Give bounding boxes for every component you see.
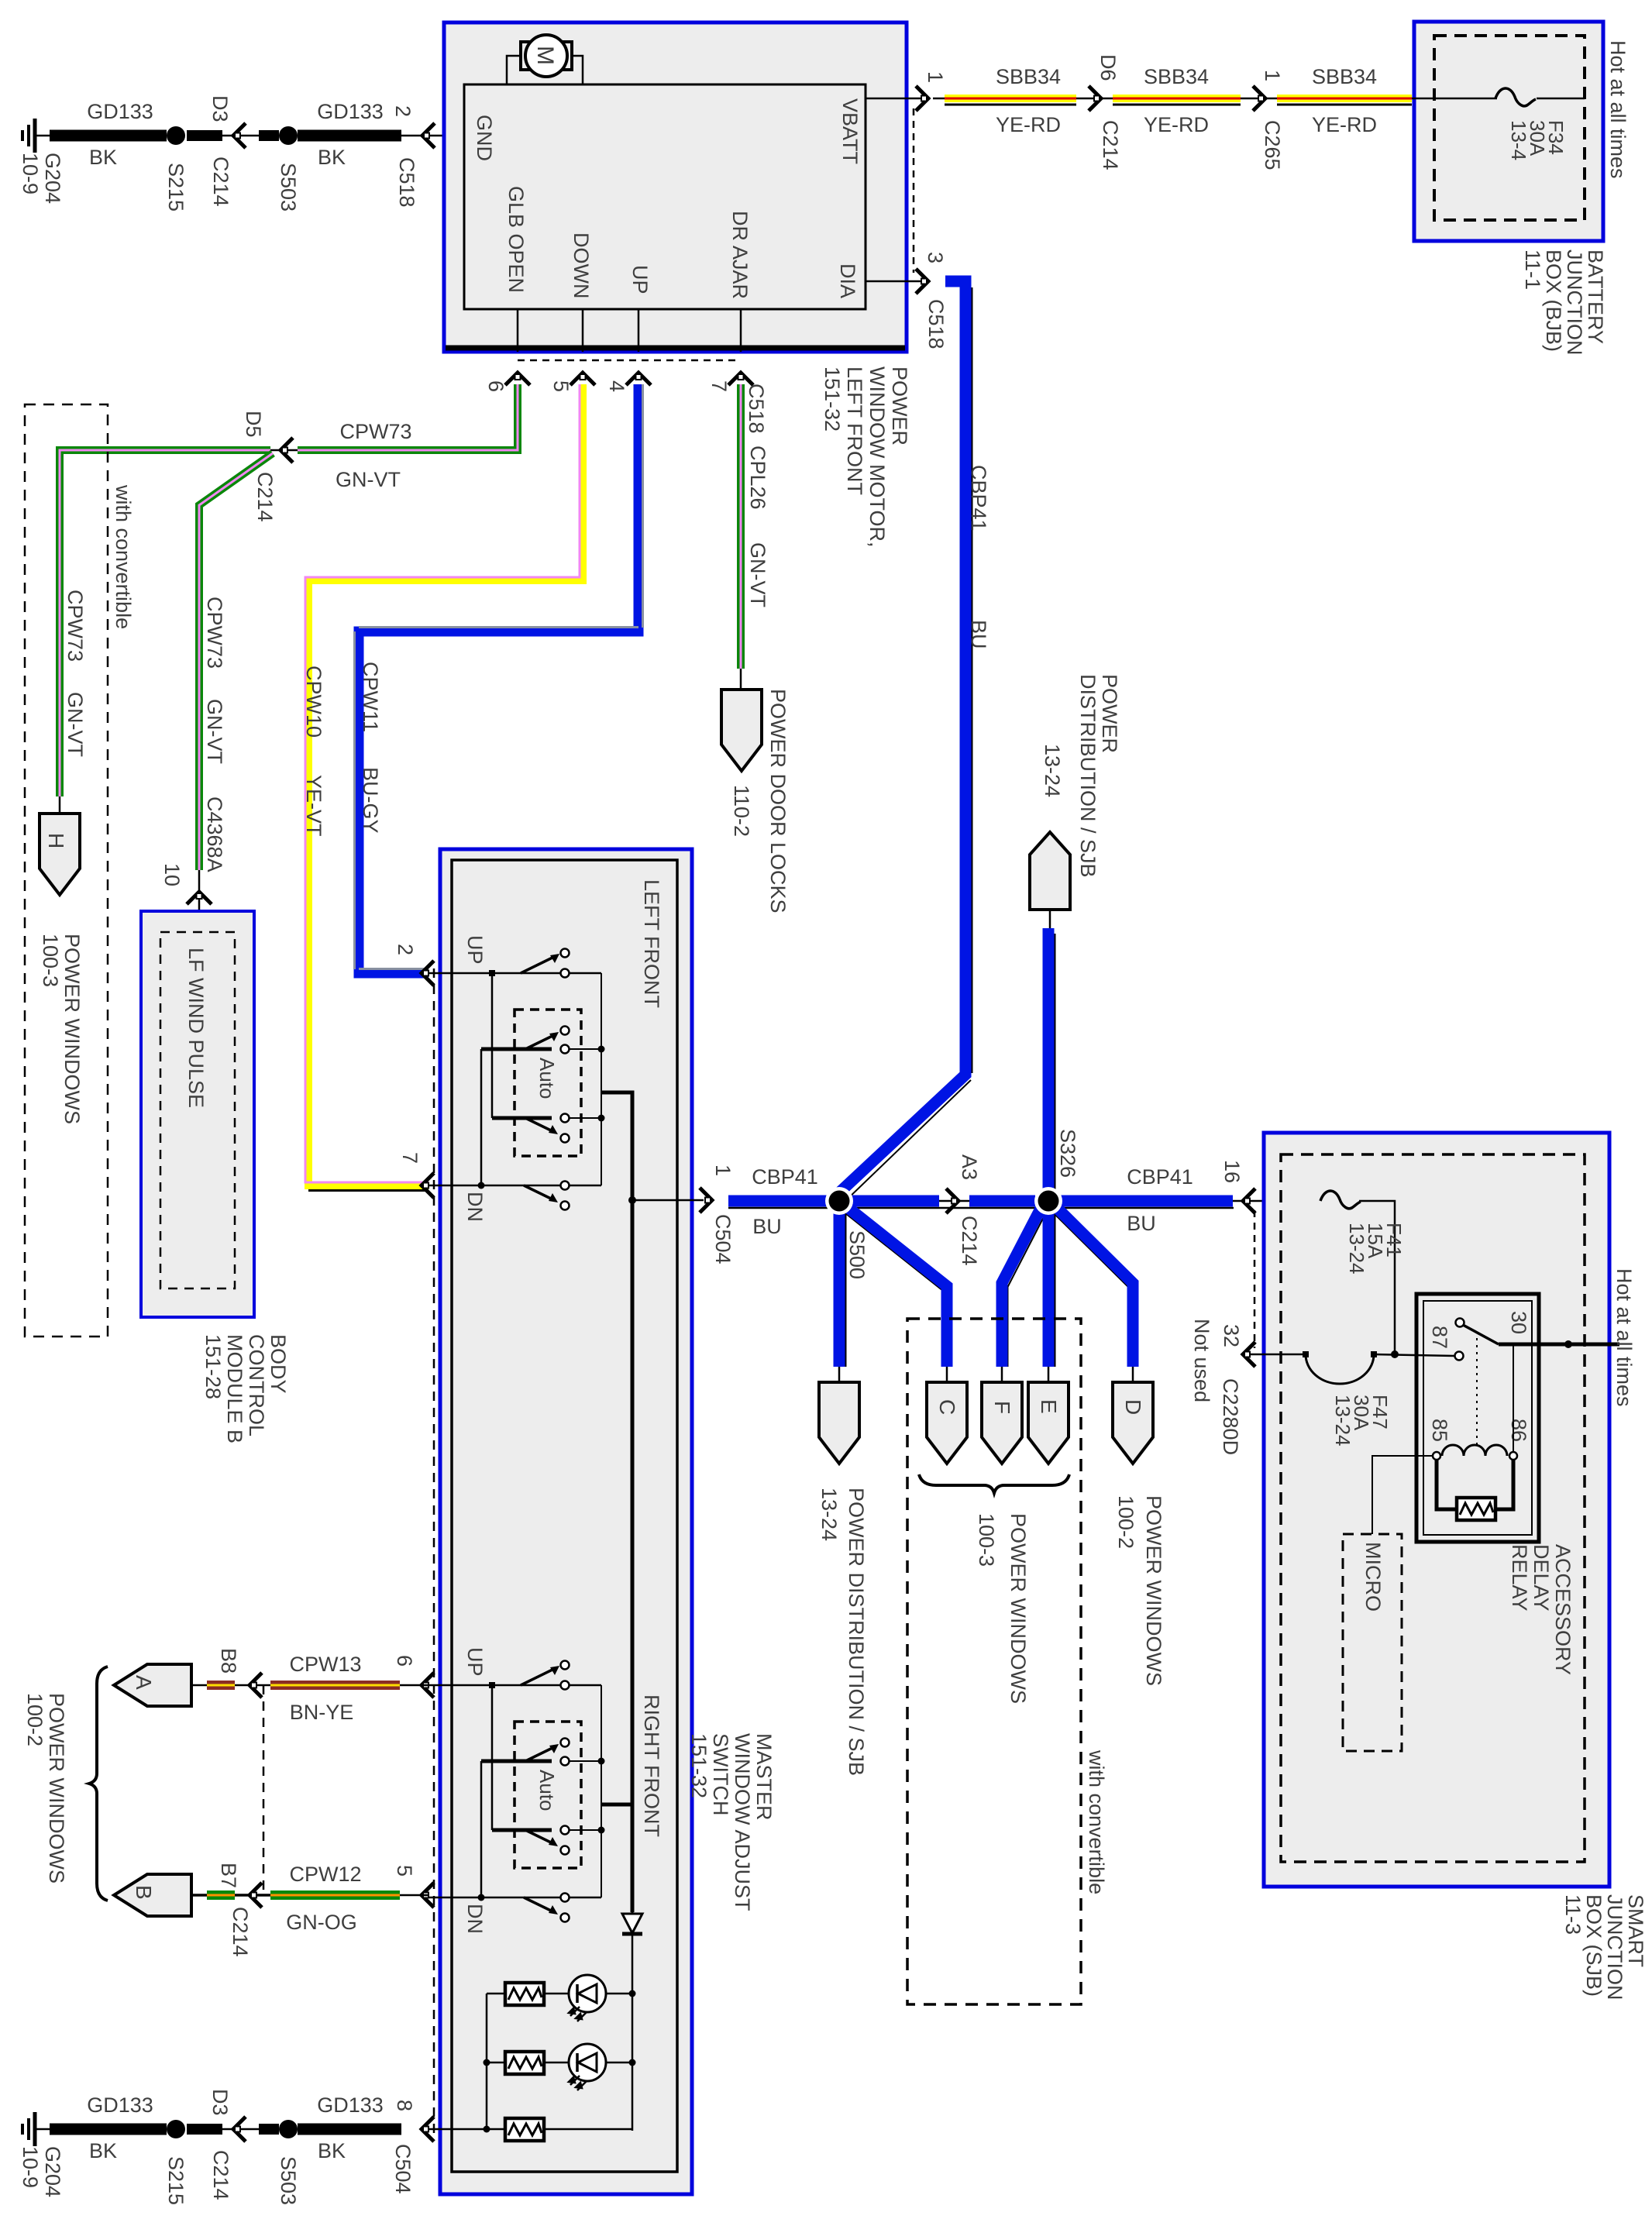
svg-text:GN-VT: GN-VT xyxy=(336,468,401,491)
svg-text:YE-RD: YE-RD xyxy=(1144,113,1209,136)
LED 1 xyxy=(569,1975,606,2021)
svg-text:CPW11: CPW11 xyxy=(359,662,382,732)
svg-text:UP: UP xyxy=(463,935,487,965)
wire dash xyxy=(259,130,279,141)
wire CPW13 BN-YE xyxy=(270,1681,400,1690)
connector B7 arrow xyxy=(250,1883,262,1908)
svg-text:13-24: 13-24 xyxy=(817,1488,841,1541)
svg-text:LF WIND PULSE: LF WIND PULSE xyxy=(184,948,208,1108)
svg-text:85: 85 xyxy=(1428,1419,1451,1442)
relay pin 86 wire xyxy=(1513,1346,1514,1451)
svg-text:GLB OPEN: GLB OPEN xyxy=(504,186,528,293)
svg-text:POWER DOOR LOCKS: POWER DOOR LOCKS xyxy=(766,689,790,913)
svg-text:16: 16 xyxy=(1220,1160,1244,1183)
svg-text:10-9: 10-9 xyxy=(19,2146,42,2188)
motor box outer xyxy=(444,22,907,352)
svg-text:RIGHT FRONT: RIGHT FRONT xyxy=(640,1694,663,1837)
wire branch shadow edges xyxy=(841,1080,1129,1367)
connector C265 arrow xyxy=(1241,98,1277,100)
svg-text:D3: D3 xyxy=(208,2089,232,2116)
svg-text:C4368A: C4368A xyxy=(203,796,226,872)
auto dashed box xyxy=(515,1010,581,1156)
svg-text:8: 8 xyxy=(393,2100,416,2111)
wire bus seg1 xyxy=(728,1196,939,1207)
wire stub GN-OG xyxy=(207,1890,235,1900)
svg-text:E: E xyxy=(1037,1399,1061,1414)
svg-text:SBB34: SBB34 xyxy=(1144,65,1209,88)
svg-text:DR AJAR: DR AJAR xyxy=(728,211,752,299)
pin arrows and numbers xyxy=(422,961,434,986)
svg-text:H: H xyxy=(44,833,68,848)
wire S500 down branch xyxy=(834,1201,845,1367)
svg-text:CPL26: CPL26 xyxy=(746,446,769,510)
svg-text:CPW73: CPW73 xyxy=(64,590,87,662)
svg-text:GN-VT: GN-VT xyxy=(64,692,87,757)
svg-text:YE-VT: YE-VT xyxy=(302,775,325,837)
svg-text:B: B xyxy=(132,1885,156,1900)
svg-text:BU-GY: BU-GY xyxy=(359,767,382,834)
resistor R3 row xyxy=(484,2126,490,2133)
svg-text:A: A xyxy=(132,1675,156,1690)
svg-text:100-2: 100-2 xyxy=(23,1693,46,1746)
connector D5 arrow xyxy=(270,449,298,452)
svg-text:LEFT FRONT: LEFT FRONT xyxy=(640,879,663,1008)
svg-text:POWER DISTRIBUTION / SJB: POWER DISTRIBUTION / SJB xyxy=(845,1488,868,1776)
connector D3 arrow xyxy=(233,123,246,148)
svg-text:87: 87 xyxy=(1428,1326,1451,1349)
svg-text:Auto: Auto xyxy=(535,1058,559,1099)
svg-text:A3: A3 xyxy=(958,1154,981,1180)
motor box inner xyxy=(464,84,866,309)
svg-text:110-2: 110-2 xyxy=(730,785,753,837)
connector D3 arrow xyxy=(233,2117,246,2142)
svg-text:DN: DN xyxy=(463,1904,487,1934)
svg-text:B7: B7 xyxy=(217,1863,240,1888)
svg-text:POWER WINDOWS: POWER WINDOWS xyxy=(60,934,84,1124)
pin 1 output junction xyxy=(628,1196,636,1204)
wire CBP41 vertical xyxy=(835,281,965,1197)
svg-text:C504: C504 xyxy=(711,1214,735,1264)
ground G204 xyxy=(22,2112,51,2146)
svg-text:C214: C214 xyxy=(209,157,232,207)
svg-text:D5: D5 xyxy=(242,411,265,438)
relay pin 87 contact xyxy=(1455,1352,1464,1361)
wire GD133 BK segment 1 xyxy=(50,2124,167,2135)
relay actuator dotted line xyxy=(1476,1338,1478,1448)
fuse F47 30A xyxy=(1306,1354,1374,1384)
svg-text:CPW10: CPW10 xyxy=(302,666,325,738)
connector B8 arrow xyxy=(250,1673,262,1698)
svg-text:S500: S500 xyxy=(845,1230,869,1279)
splice S215 xyxy=(167,2120,185,2138)
svg-text:C518: C518 xyxy=(395,157,418,208)
connector A3 arrow xyxy=(939,1200,969,1202)
svg-text:GN-VT: GN-VT xyxy=(746,542,769,607)
with convertible dashed box left xyxy=(25,404,108,1337)
svg-text:G204: G204 xyxy=(41,153,64,204)
switch UP arm xyxy=(521,956,556,973)
connector D6 arrow xyxy=(1076,98,1113,100)
svg-text:GD133: GD133 xyxy=(87,100,153,123)
relay switch arm xyxy=(1463,1325,1499,1344)
connector pentagon POWER DOOR LOCKS xyxy=(740,669,742,690)
VBATT pin 1 wire xyxy=(866,98,922,100)
wire SBB34 seg2 xyxy=(1113,95,1241,106)
switch auto up xyxy=(481,1048,552,1051)
wire CPW73 to BCM xyxy=(199,453,273,870)
svg-text:S215: S215 xyxy=(164,163,188,212)
svg-text:5: 5 xyxy=(549,380,573,392)
relay pin 85 wire to micro xyxy=(1372,1456,1433,1534)
switch cluster RIGHT FRONT xyxy=(428,1661,632,1922)
connector pentagon S500 out xyxy=(819,1382,859,1464)
wire S326 branch to F xyxy=(1002,1206,1042,1367)
wire dash xyxy=(259,2124,279,2135)
wire S500 branch to C xyxy=(845,1206,947,1367)
brace under C F E xyxy=(919,1474,1069,1493)
svg-text:BU: BU xyxy=(967,620,990,649)
connector pentagon C xyxy=(927,1382,967,1464)
svg-text:S503: S503 xyxy=(277,2156,300,2205)
diode xyxy=(632,1804,634,1914)
connector pentagon E xyxy=(1028,1382,1069,1464)
svg-text:GN-OG: GN-OG xyxy=(286,1911,357,1934)
pin 5 arrow xyxy=(570,373,595,385)
svg-text:100-2: 100-2 xyxy=(1114,1495,1137,1549)
fuse F41 15A xyxy=(1320,1191,1361,1209)
svg-text:C: C xyxy=(935,1399,959,1415)
switch DN arm xyxy=(524,1185,552,1199)
svg-text:with convertible: with convertible xyxy=(1085,1749,1108,1894)
wire bus seg3 xyxy=(1061,1196,1233,1207)
relay hot feed line xyxy=(1499,1343,1619,1347)
svg-text:DIA: DIA xyxy=(836,263,859,298)
with convertible dashed box right xyxy=(907,1319,1081,2004)
common bus down to right front xyxy=(631,1200,635,1804)
svg-text:7: 7 xyxy=(707,380,731,392)
svg-text:DOWN: DOWN xyxy=(570,232,593,298)
connector dashed bracket 16-32 xyxy=(1254,1210,1256,1348)
connector pentagon F xyxy=(982,1382,1022,1464)
svg-text:C214: C214 xyxy=(958,1216,981,1266)
svg-text:POWER WINDOWS: POWER WINDOWS xyxy=(45,1693,68,1884)
svg-text:CPW73: CPW73 xyxy=(203,597,226,669)
svg-text:CBP41: CBP41 xyxy=(1127,1165,1193,1189)
svg-text:D3: D3 xyxy=(208,95,232,122)
connector 32 arrow Not used xyxy=(1248,1354,1306,1356)
wire to motor xyxy=(507,56,583,84)
svg-text:86: 86 xyxy=(1507,1419,1530,1442)
svg-text:DN: DN xyxy=(463,1192,487,1222)
svg-text:BK: BK xyxy=(89,2139,117,2162)
svg-text:CPW73: CPW73 xyxy=(339,420,411,443)
svg-text:2: 2 xyxy=(394,944,417,955)
svg-text:1: 1 xyxy=(711,1165,735,1176)
splice S503 xyxy=(279,126,298,145)
ground G204 xyxy=(22,119,51,153)
svg-text:30: 30 xyxy=(1507,1311,1530,1334)
svg-text:POWER WINDOWS: POWER WINDOWS xyxy=(1007,1513,1030,1704)
svg-text:VBATT: VBATT xyxy=(838,98,862,164)
wire CPW73 to H xyxy=(60,450,270,796)
svg-text:S326: S326 xyxy=(1056,1129,1079,1178)
svg-text:GD133: GD133 xyxy=(317,100,384,123)
connector C518 dashed bracket xyxy=(913,108,915,273)
connector 16 arrow xyxy=(1233,1200,1320,1202)
relay resistor xyxy=(1457,1498,1495,1520)
svg-text:CBP41: CBP41 xyxy=(967,465,990,532)
pin stubs at box bottom xyxy=(517,309,519,352)
switch cluster LEFT FRONT xyxy=(428,949,632,1210)
svg-text:GN-VT: GN-VT xyxy=(203,699,226,764)
svg-text:C265: C265 xyxy=(1261,120,1284,170)
svg-text:MICRO: MICRO xyxy=(1361,1542,1385,1612)
resistor R2 row xyxy=(484,2059,490,2066)
svg-text:4: 4 xyxy=(605,380,628,392)
connector C518 pin 2 arrow xyxy=(422,123,435,148)
svg-text:7: 7 xyxy=(398,1152,422,1164)
svg-text:SBB34: SBB34 xyxy=(1312,65,1377,88)
svg-text:10-9: 10-9 xyxy=(19,153,42,194)
svg-text:Not used: Not used xyxy=(1190,1319,1213,1402)
motor M1 xyxy=(521,42,572,70)
wire SBB34 seg1 xyxy=(933,95,1076,106)
wire GD133 BK segment 2 xyxy=(298,2124,401,2135)
pin DN wire xyxy=(428,1185,601,1187)
common vertical xyxy=(601,973,602,1185)
wire CPW12 GN-OG xyxy=(270,1890,400,1900)
connector pentagon D xyxy=(1113,1382,1153,1464)
svg-text:POWER: POWER xyxy=(1098,674,1121,753)
svg-text:Hot at all times: Hot at all times xyxy=(1606,40,1630,179)
svg-text:6: 6 xyxy=(393,1655,416,1667)
connector C518 dashed line under box xyxy=(518,360,741,362)
wire CPW73 from pin6 xyxy=(298,384,518,450)
splice S500 xyxy=(825,1187,853,1215)
svg-text:F: F xyxy=(990,1401,1014,1414)
svg-text:100-3: 100-3 xyxy=(39,934,62,987)
svg-text:1: 1 xyxy=(924,71,947,83)
wire bus seg2 xyxy=(969,1196,1035,1207)
splice S503 xyxy=(279,2120,298,2138)
svg-text:Hot at all times: Hot at all times xyxy=(1612,1268,1636,1407)
connector 10 arrow xyxy=(198,870,201,932)
svg-text:C214: C214 xyxy=(229,1907,252,1957)
svg-text:1: 1 xyxy=(1261,70,1284,81)
svg-text:13-24: 13-24 xyxy=(1041,744,1064,797)
brace A B xyxy=(89,1667,108,1901)
wire S326 branch to D xyxy=(1055,1206,1133,1367)
svg-text:F3430A13-4: F3430A13-4 xyxy=(1507,120,1568,160)
svg-text:C214: C214 xyxy=(1099,120,1122,170)
svg-text:BN-YE: BN-YE xyxy=(290,1701,354,1724)
svg-text:GND: GND xyxy=(473,115,496,161)
svg-text:M: M xyxy=(532,46,558,65)
relay coil xyxy=(1433,1452,1440,1460)
wire dash xyxy=(187,130,222,141)
connector pentagon H xyxy=(59,796,61,814)
svg-text:C504: C504 xyxy=(391,2144,415,2194)
svg-text:POWER WINDOWS: POWER WINDOWS xyxy=(1142,1495,1165,1686)
svg-text:C214: C214 xyxy=(209,2150,232,2200)
stub lines xyxy=(838,1367,841,1384)
svg-text:G204: G204 xyxy=(41,2146,64,2197)
svg-text:BU: BU xyxy=(752,1215,782,1238)
svg-text:6: 6 xyxy=(484,380,508,392)
svg-text:S215: S215 xyxy=(164,2156,188,2205)
svg-text:BK: BK xyxy=(89,146,117,169)
svg-text:5: 5 xyxy=(393,1865,416,1877)
svg-text:BK: BK xyxy=(318,146,346,169)
wire xyxy=(222,135,259,137)
svg-text:B8: B8 xyxy=(217,1648,240,1674)
svg-text:YE-RD: YE-RD xyxy=(996,113,1061,136)
LED 2 xyxy=(569,2044,606,2090)
resistor R1 row xyxy=(487,1993,505,1995)
svg-text:UP: UP xyxy=(628,265,652,294)
svg-text:BU: BU xyxy=(1127,1212,1156,1235)
svg-text:32: 32 xyxy=(1220,1324,1243,1347)
wire SBB34 seg3 xyxy=(1277,95,1412,106)
connector C214 dashed bracket xyxy=(263,1685,265,1895)
svg-text:D: D xyxy=(1121,1399,1145,1415)
svg-text:BK: BK xyxy=(318,2139,346,2162)
wire into fuse xyxy=(1412,98,1497,100)
pin 4 arrow xyxy=(626,373,651,385)
fuse F34 30A xyxy=(1495,88,1536,106)
pin UP wire xyxy=(428,972,601,975)
connector pentagon A xyxy=(114,1664,191,1706)
pin 7 arrow xyxy=(728,373,753,385)
relay resistor leads xyxy=(1437,1460,1457,1509)
svg-text:2: 2 xyxy=(391,105,415,117)
wire stub BN-YE xyxy=(207,1681,235,1690)
svg-text:100-3: 100-3 xyxy=(975,1513,998,1567)
svg-text:3: 3 xyxy=(924,252,947,263)
svg-text:C2280D: C2280D xyxy=(1219,1378,1242,1455)
splice S215 xyxy=(167,126,185,145)
svg-text:C518: C518 xyxy=(924,299,948,349)
svg-text:D6: D6 xyxy=(1096,54,1120,81)
svg-text:10: 10 xyxy=(160,863,184,886)
svg-text:DISTRIBUTION / SJB: DISTRIBUTION / SJB xyxy=(1076,674,1100,878)
svg-text:UP: UP xyxy=(463,1647,487,1677)
connector C504 dashed line xyxy=(433,968,435,2137)
wire to GND pin xyxy=(401,135,464,137)
svg-text:with convertible: with convertible xyxy=(112,484,135,629)
svg-text:GD133: GD133 xyxy=(87,2093,153,2117)
svg-text:SBB34: SBB34 xyxy=(996,65,1061,88)
svg-text:S503: S503 xyxy=(277,163,300,212)
svg-text:CPW12: CPW12 xyxy=(289,1863,361,1886)
wire dash xyxy=(187,2124,222,2135)
wire S326 down branch to E xyxy=(1043,1206,1055,1367)
switch auto down xyxy=(492,1116,552,1120)
svg-text:CPW13: CPW13 xyxy=(289,1653,361,1676)
wire BU pentagon to S326 xyxy=(1043,928,1055,1197)
svg-text:C518: C518 xyxy=(745,384,768,434)
pin 6 arrow xyxy=(505,373,530,385)
svg-text:C214: C214 xyxy=(253,472,277,522)
splice S326 xyxy=(1034,1187,1062,1215)
svg-text:YE-RD: YE-RD xyxy=(1312,113,1377,136)
MICRO dashed box xyxy=(1343,1534,1402,1751)
svg-text:CBP41: CBP41 xyxy=(752,1165,818,1189)
wire GD133 BK segment 2 xyxy=(298,130,401,142)
pin 8 arrow xyxy=(422,2117,434,2142)
wire GD133 BK segment 1 xyxy=(50,130,167,142)
DIA pin 3 wire xyxy=(866,280,922,283)
svg-text:GD133: GD133 xyxy=(317,2093,384,2117)
connector pentagon B xyxy=(114,1874,191,1916)
